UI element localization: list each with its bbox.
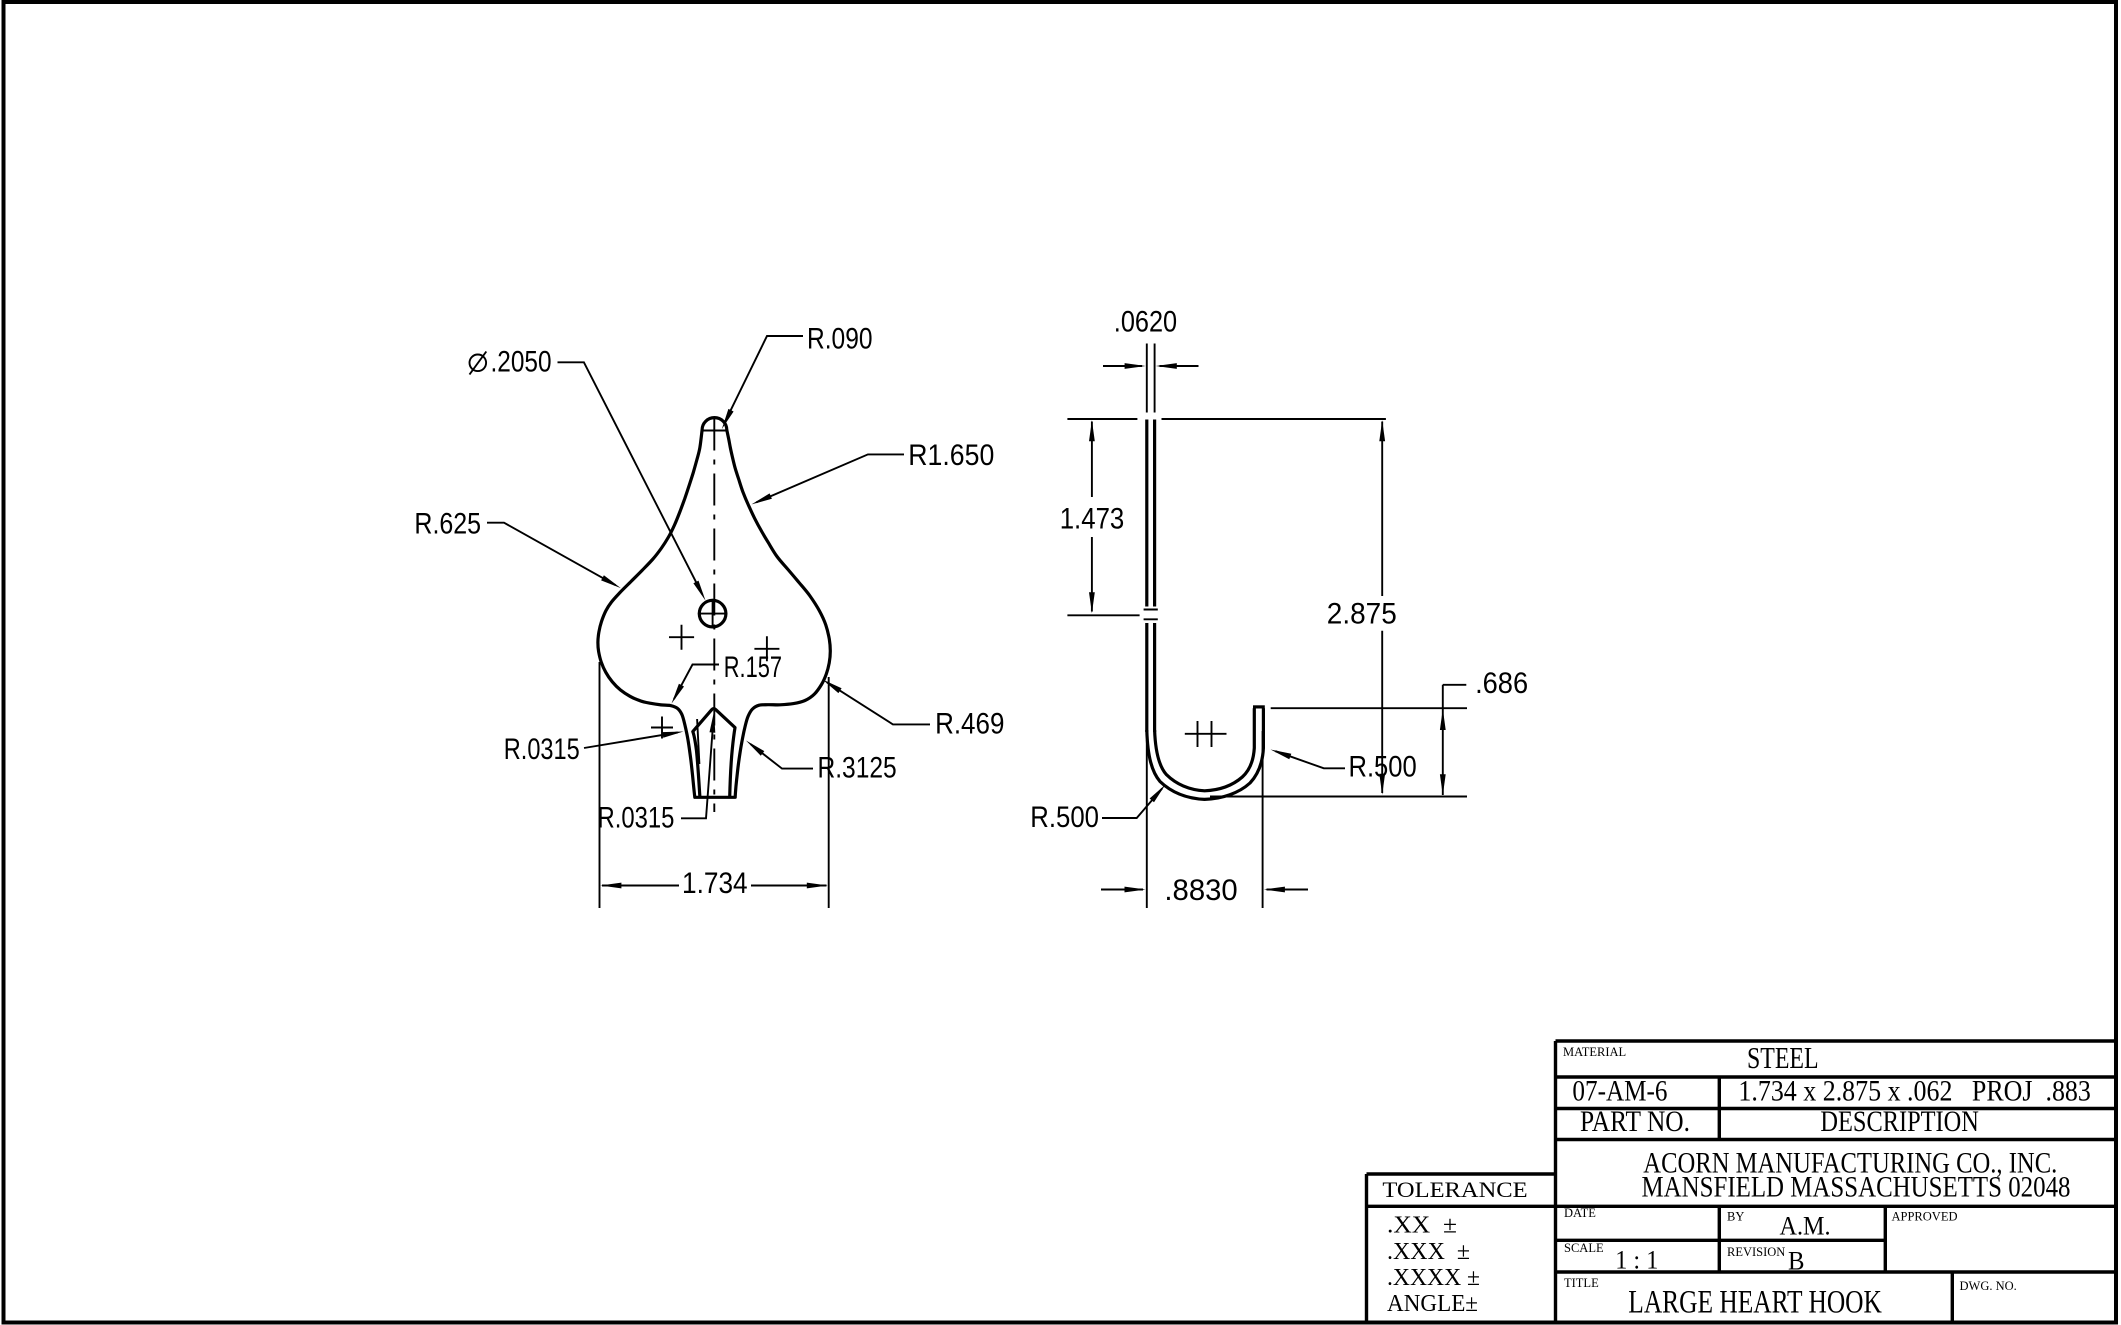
svg-text:TOLERANCE: TOLERANCE	[1382, 1177, 1527, 1202]
svg-text:MATERIAL: MATERIAL	[1563, 1045, 1626, 1059]
dim .8830 extension lines	[1147, 731, 1263, 908]
svg-text:.XXXX ±: .XXXX ±	[1387, 1265, 1480, 1291]
svg-text:SCALE: SCALE	[1564, 1241, 1604, 1255]
svg-text:B: B	[1788, 1247, 1805, 1276]
svg-text:R.0315: R.0315	[504, 733, 580, 766]
leader R.0315 lower	[681, 725, 713, 818]
hook strip inner line	[1153, 420, 1156, 733]
leader R.3125	[751, 744, 813, 769]
hook J-curve outer edge	[1147, 708, 1264, 799]
svg-text:LARGE HEART HOOK: LARGE HEART HOOK	[1628, 1285, 1882, 1321]
extension line hook bottom	[1210, 796, 1467, 798]
leader R1.650	[756, 454, 904, 502]
top extension line	[1067, 418, 1386, 420]
dim .8830 arrows outside	[1101, 889, 1308, 891]
svg-text:2.875: 2.875	[1327, 598, 1397, 631]
svg-text:R.0315: R.0315	[598, 802, 675, 835]
leader R.500 left	[1102, 789, 1162, 819]
svg-text:PART NO.: PART NO.	[1580, 1105, 1690, 1138]
dim 1.473 lower extension tick	[1067, 614, 1139, 616]
extension lines 1.734	[600, 662, 829, 908]
hook tip end cap	[1253, 705, 1265, 708]
svg-text:1 : 1: 1 : 1	[1615, 1246, 1658, 1275]
svg-text:MANSFIELD MASSACHUSETTS 02048: MANSFIELD MASSACHUSETTS 02048	[1642, 1171, 2071, 1204]
title block column lines	[1719, 1077, 1952, 1321]
svg-text:1.734 x 2.875 x .062 PROJ .: 1.734 x 2.875 x .062 PROJ .883	[1738, 1075, 2090, 1108]
svg-text:R1.650: R1.650	[908, 439, 994, 472]
svg-text:.2050: .2050	[491, 346, 552, 379]
svg-text:STEEL: STEEL	[1747, 1040, 1819, 1075]
svg-text:R.625: R.625	[414, 508, 481, 541]
svg-text:REVISION: REVISION	[1727, 1245, 1785, 1259]
leader R.500 right	[1276, 751, 1346, 768]
center mark left lobe	[669, 625, 694, 650]
dimension 1.734	[602, 885, 827, 887]
dim .0620 arrows	[1103, 365, 1199, 367]
svg-text:ANGLE±: ANGLE±	[1387, 1291, 1478, 1317]
tip center cross	[703, 430, 726, 432]
svg-text:.XXX ±: .XXX ±	[1387, 1239, 1470, 1265]
svg-text:A.M.: A.M.	[1780, 1212, 1831, 1241]
svg-text:DWG. NO.: DWG. NO.	[1960, 1279, 2017, 1293]
svg-text:1.473: 1.473	[1060, 503, 1125, 536]
leader R.0315 upper	[584, 732, 678, 748]
hook strip outer line	[1145, 420, 1148, 733]
leader R.157	[674, 665, 719, 700]
svg-text:07-AM-6: 07-AM-6	[1572, 1075, 1667, 1108]
inner hook tip arch	[693, 709, 735, 798]
title block row lines	[1367, 1077, 2117, 1272]
extension line hook tip top	[1271, 707, 1467, 709]
svg-text:TITLE: TITLE	[1564, 1276, 1599, 1290]
svg-text:.XX ±: .XX ±	[1387, 1213, 1457, 1239]
dim 1.473	[1091, 422, 1093, 612]
svg-text:R.157: R.157	[724, 651, 782, 684]
leader R.090	[724, 336, 803, 423]
hook J-curve inner edge	[1155, 708, 1255, 791]
svg-text:R.500: R.500	[1030, 801, 1099, 834]
svg-text:.8830: .8830	[1164, 874, 1237, 907]
svg-text:.0620: .0620	[1114, 306, 1177, 339]
svg-text:R.090: R.090	[807, 323, 873, 356]
svg-text:R.469: R.469	[935, 708, 1004, 741]
dim .0620 extension lines	[1147, 344, 1155, 413]
leader dia .2050	[558, 362, 703, 594]
leader R.625	[487, 523, 616, 586]
center mark right lobe	[754, 636, 779, 661]
break at 1.473 point	[1143, 607, 1159, 624]
label dia .2050	[470, 355, 487, 372]
FRONT VIEW	[414, 323, 1004, 909]
dim 2.875	[1381, 422, 1383, 794]
tolerance box	[1367, 1174, 1556, 1321]
heart outline	[598, 418, 830, 798]
svg-text:DESCRIPTION: DESCRIPTION	[1820, 1105, 1979, 1138]
center mark fillet	[651, 717, 673, 739]
SIDE VIEW	[1030, 306, 1528, 909]
svg-text:.686: .686	[1475, 667, 1528, 700]
svg-text:R.500: R.500	[1349, 751, 1417, 784]
svg-text:DATE: DATE	[1564, 1206, 1596, 1220]
hidden edge line	[697, 719, 699, 764]
center marks R.500	[1185, 721, 1227, 747]
centerline	[713, 419, 715, 813]
svg-text:APPROVED: APPROVED	[1892, 1210, 1958, 1224]
leader R.469	[827, 682, 930, 724]
hole ø.2050	[699, 600, 726, 627]
dim .686	[1443, 685, 1467, 795]
svg-text:BY: BY	[1727, 1210, 1744, 1224]
svg-text:1.734: 1.734	[682, 867, 748, 900]
TITLE BLOCK	[1367, 1040, 2117, 1321]
title block outer lines	[1556, 1041, 2117, 1321]
